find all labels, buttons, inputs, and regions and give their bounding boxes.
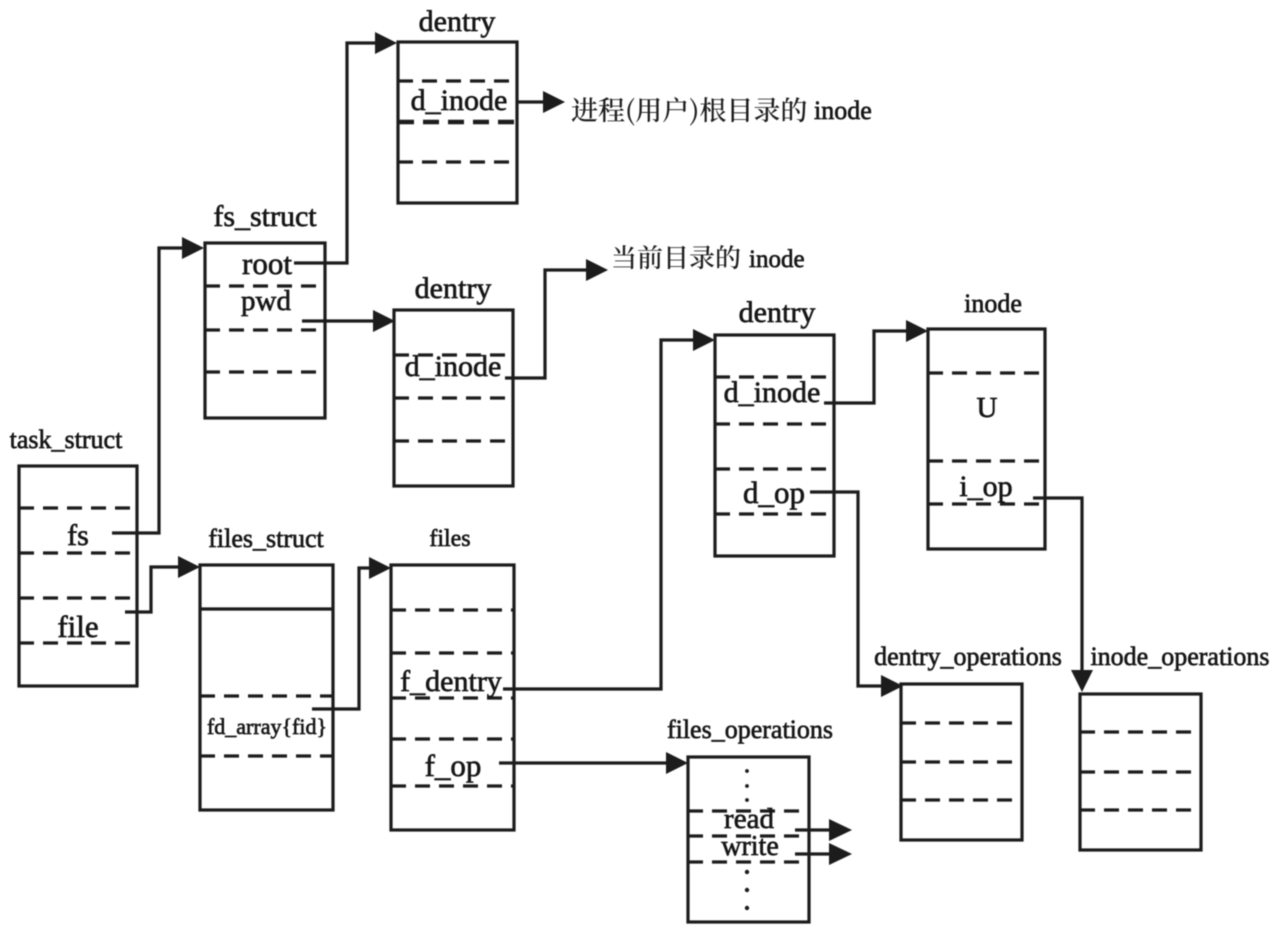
files dashed line above f_dentry — [391, 651, 514, 654]
svg-text:root: root — [242, 246, 292, 281]
struct box: task_struct — [19, 466, 137, 686]
struct box: inode — [928, 329, 1045, 549]
wire: files.f_op -> files_operations — [499, 761, 680, 764]
wire: dentry(mid).d_inode -> annotation 2 — [505, 270, 600, 378]
files dashed line above f_op — [391, 737, 514, 740]
struct box: fs_struct — [205, 243, 325, 418]
svg-text:dentry: dentry — [419, 5, 496, 38]
svg-text:inode: inode — [964, 289, 1022, 318]
struct box: dentry_operations — [901, 684, 1022, 840]
arrowhead annotation 2 — [586, 259, 608, 281]
dots in files_operations (upper) — [745, 769, 749, 773]
struct box: files_struct — [200, 565, 333, 810]
dentry_operations dashed line 1 — [901, 721, 1022, 724]
dentry(top) dashed row line 2 (heavy) — [398, 120, 517, 125]
svg-text:d_op: d_op — [743, 475, 805, 510]
svg-text:inode: inode — [749, 246, 805, 273]
task_struct dashed line under file — [19, 641, 137, 644]
dentry(right) dashed line below d_inode — [715, 422, 834, 425]
annotation text 1: 进程(用户)根目录的 (CJK glyph paths) — [572, 97, 807, 126]
svg-text:inode: inode — [814, 96, 872, 125]
arrowhead read — [829, 819, 852, 841]
arrowhead annotation 1 — [543, 91, 565, 113]
arrowhead into dentry_operations — [881, 675, 903, 697]
files dashed line below f_dentry — [391, 696, 514, 699]
dentry_operations dashed line 2 — [901, 760, 1022, 763]
svg-text:pwd: pwd — [241, 285, 291, 317]
dentry(mid) dashed row line 3 — [394, 439, 513, 442]
files_struct solid inner line — [200, 607, 333, 610]
wire: dentry(top).d_inode -> annotation 1 — [517, 100, 557, 103]
inode dashed line below U — [928, 459, 1045, 462]
svg-text:i_op: i_op — [959, 470, 1012, 503]
arrowhead into files — [369, 557, 391, 579]
wire: inode.i_op -> inode_operations — [1033, 498, 1082, 682]
wire: task_struct.file -> files_struct — [125, 567, 192, 612]
wire: dentry(right).d_inode -> inode — [824, 331, 920, 403]
inode_operations dashed line 2 — [1080, 770, 1201, 773]
struct box: inode_operations — [1080, 694, 1201, 850]
svg-text:files_operations: files_operations — [667, 715, 833, 744]
struct box: dentry (middle) — [394, 310, 513, 486]
inode dashed line above U — [928, 371, 1045, 374]
wire: files_operations.write -> out — [795, 852, 832, 855]
dentry(mid) dashed row line 2 — [394, 396, 513, 399]
arrowhead into files_struct — [178, 556, 200, 578]
dentry(right) dashed line above d_inode — [715, 375, 834, 378]
struct box: files — [391, 565, 514, 830]
dentry(top) dashed row line 1 — [398, 79, 517, 82]
files dashed line below f_op — [391, 784, 514, 787]
arrowhead into dentry(top) — [375, 32, 397, 54]
task_struct dashed line 3 — [19, 596, 137, 599]
arrowhead into inode_operations (down) — [1071, 670, 1093, 692]
svg-text:files: files — [429, 526, 470, 552]
fs_struct dashed line under root — [205, 284, 325, 287]
svg-text:dentry: dentry — [739, 296, 816, 329]
files_operations dashed line below write — [688, 860, 809, 863]
wire: fs_struct.pwd -> dentry(mid) — [302, 319, 387, 322]
wire: files_operations.read -> out — [795, 828, 832, 831]
fs_struct dashed line under pwd — [205, 328, 325, 331]
task_struct dashed line under fs — [19, 551, 137, 554]
svg-text:task_struct: task_struct — [10, 425, 123, 454]
files_operations dashed line between read and write — [688, 834, 809, 837]
svg-text:d_inode: d_inode — [724, 376, 821, 409]
wire: fs_struct.root -> dentry(top) — [294, 43, 389, 263]
files_struct dashed line below fd_array — [200, 754, 333, 757]
svg-text:U: U — [977, 392, 998, 424]
inode dashed line below i_op — [928, 502, 1045, 505]
task_struct dashed line 1 — [19, 506, 137, 509]
svg-text:fd_array{fid}: fd_array{fid} — [207, 714, 327, 739]
wire: dentry(right).d_op -> dentry_operations — [810, 492, 895, 686]
svg-text:d_inode: d_inode — [411, 84, 508, 117]
inode_operations dashed line 3 — [1080, 808, 1201, 811]
annotation text 2: 当前目录的 (CJK glyph paths) — [613, 245, 740, 269]
svg-text:write: write — [721, 831, 779, 862]
struct box: files_operations — [688, 757, 809, 922]
dots in files_operations (lower) — [745, 870, 749, 874]
files_struct dashed line above fd_array — [200, 694, 333, 697]
fs_struct dashed line lower — [205, 370, 325, 373]
svg-text:file: file — [57, 609, 98, 644]
inode_operations dashed line 1 — [1080, 730, 1201, 733]
dentry(mid) dashed row line 1 — [394, 353, 513, 356]
arrowhead write — [829, 843, 852, 865]
files_operations dashed line above read — [688, 809, 809, 812]
arrowhead into fs_struct — [182, 237, 204, 259]
svg-text:files_struct: files_struct — [208, 524, 324, 553]
svg-text:f_dentry: f_dentry — [400, 665, 502, 698]
dentry(top) dashed row line 3 — [398, 160, 517, 163]
arrowhead into files_operations — [666, 752, 688, 774]
svg-text:dentry: dentry — [415, 272, 492, 305]
svg-text:d_inode: d_inode — [405, 350, 502, 383]
arrowhead into dentry(mid) — [373, 310, 395, 332]
files dashed line 1 — [391, 608, 514, 611]
svg-text:inode_operations: inode_operations — [1090, 642, 1269, 671]
dentry_operations dashed line 3 — [901, 798, 1022, 801]
wire: task_struct.fs -> fs_struct — [112, 248, 196, 533]
wire: files.f_dentry -> dentry(right) — [503, 340, 707, 689]
svg-text:fs_struct: fs_struct — [213, 200, 317, 233]
struct box: dentry (top) — [398, 42, 517, 203]
arrowhead into inode — [906, 320, 928, 342]
svg-text:f_op: f_op — [425, 748, 482, 783]
svg-text:dentry_operations: dentry_operations — [874, 642, 1062, 671]
struct box: dentry (right) — [715, 335, 834, 556]
svg-text:fs: fs — [67, 519, 89, 552]
wire: files_struct.fd_array -> files — [312, 568, 383, 709]
arrowhead into dentry(right) — [693, 329, 715, 351]
dentry(right) dashed line below d_op — [715, 512, 834, 515]
dentry(right) dashed line above d_op — [715, 467, 834, 470]
